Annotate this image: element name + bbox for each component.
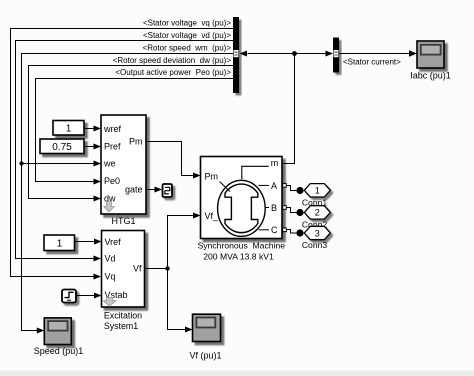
arrowhead into Pe0 bbox=[94, 179, 102, 185]
machine rotor I-beam bbox=[225, 184, 258, 233]
wire gate to terminator bbox=[146, 189, 155, 191]
svg-text:200 MVA 13.8 kV1: 200 MVA 13.8 kV1 bbox=[203, 252, 274, 262]
svg-text:<Output active power Peo (pu): <Output active power Peo (pu)> bbox=[115, 68, 231, 77]
svg-text:A: A bbox=[271, 181, 277, 191]
svg-text:<Rotor speed wm (pu)>: <Rotor speed wm (pu)> bbox=[143, 43, 232, 52]
constant block Vref value 1 bbox=[44, 235, 75, 251]
junction dot B bbox=[296, 209, 303, 216]
svg-text:C: C bbox=[271, 225, 278, 235]
block Excitation System1 bbox=[102, 231, 145, 308]
wire dw feedback (row4 to HTG dw) bbox=[29, 66, 234, 199]
arrowhead into we bbox=[94, 161, 102, 167]
machine terminal line B bbox=[266, 207, 270, 209]
arrowhead into Speed scope bbox=[37, 328, 45, 334]
scope Iabc (pu)1 bbox=[417, 41, 444, 68]
svg-text:1: 1 bbox=[315, 186, 320, 196]
junction node we bbox=[19, 161, 23, 165]
arrowhead into Vstab bbox=[94, 293, 102, 299]
wire C to Conn3 bbox=[286, 230, 297, 234]
terminator block bbox=[163, 184, 173, 197]
svg-text:System1: System1 bbox=[104, 321, 138, 331]
svg-text:HTG1: HTG1 bbox=[111, 216, 135, 226]
constant block wref value 1 bbox=[53, 121, 84, 136]
svg-text:B: B bbox=[271, 203, 277, 213]
svg-text:Pm: Pm bbox=[205, 172, 219, 182]
arrowhead into bus selector bbox=[240, 51, 248, 57]
wire wm feedback (row3 to HTG we and Speed scope) bbox=[22, 54, 234, 331]
arrowhead into Iabc scope bbox=[409, 50, 417, 56]
arrowhead into Vref bbox=[94, 239, 102, 245]
junction dot C bbox=[296, 229, 303, 236]
machine terminal line A bbox=[259, 184, 270, 186]
junction node Vf bbox=[165, 266, 169, 270]
wire A to Conn1 bbox=[286, 186, 297, 191]
HTG1 gray arrow badge bbox=[104, 202, 115, 213]
machine port square C bbox=[283, 228, 287, 232]
svg-text:<Stator voltage vd (pu)>: <Stator voltage vd (pu)> bbox=[143, 31, 231, 40]
wire vq feedback (row1 to Excitation Vq) bbox=[11, 29, 234, 277]
svg-text:<Stator current>: <Stator current> bbox=[343, 58, 401, 67]
svg-text:we: we bbox=[103, 159, 116, 169]
arrowhead into Vf scope bbox=[185, 327, 193, 333]
machine terminal line C bbox=[259, 229, 270, 231]
scope Vf (pu)1 bbox=[193, 314, 221, 341]
svg-text:Vf (pu)1: Vf (pu)1 bbox=[189, 351, 221, 361]
svg-text:Pm: Pm bbox=[129, 137, 143, 147]
junction dot A bbox=[296, 187, 303, 194]
svg-text:Conn3: Conn3 bbox=[302, 240, 328, 250]
arrowhead into terminator bbox=[155, 187, 163, 193]
arrowhead into current selector bbox=[326, 51, 334, 57]
wire Pref bbox=[84, 146, 94, 148]
step source block for Vstab bbox=[62, 290, 76, 303]
connection port 3 bbox=[304, 226, 330, 239]
machine port square A bbox=[283, 184, 287, 188]
svg-text:<Stator voltage vq (pu)>: <Stator voltage vq (pu)> bbox=[143, 19, 231, 28]
svg-text:Vf: Vf bbox=[133, 264, 142, 274]
svg-text:2: 2 bbox=[315, 208, 320, 218]
arrowhead into Vd bbox=[94, 256, 102, 262]
wire wref bbox=[84, 128, 94, 130]
svg-text:Pe0: Pe0 bbox=[104, 176, 120, 186]
svg-text:Vf_: Vf_ bbox=[205, 211, 220, 221]
connection port 2 bbox=[304, 206, 330, 219]
svg-text:Pref: Pref bbox=[104, 141, 121, 151]
svg-text:Vq: Vq bbox=[105, 271, 116, 281]
svg-text:wref: wref bbox=[103, 124, 122, 134]
svg-text:0.75: 0.75 bbox=[52, 142, 72, 153]
wire Pm (HTG to machine) bbox=[146, 142, 194, 176]
constant block Pref value 0.75 bbox=[40, 139, 84, 154]
arrowhead into Pref bbox=[94, 144, 102, 150]
arrowhead into Vq bbox=[94, 274, 102, 280]
svg-text:gate: gate bbox=[125, 185, 143, 195]
wire B to Conn2 bbox=[286, 208, 297, 213]
svg-text:1: 1 bbox=[66, 124, 72, 135]
wire vd feedback (row2 to Excitation Vd) bbox=[16, 41, 234, 259]
block HTG1 bbox=[101, 115, 146, 214]
block Synchronous Machine bbox=[201, 157, 283, 239]
arrowhead into wref bbox=[94, 126, 102, 132]
svg-text:Speed (pu)1: Speed (pu)1 bbox=[34, 346, 84, 356]
arrowhead into machine Vf_ bbox=[193, 213, 201, 219]
wire m output (machine to bus selector and current selector) bbox=[248, 54, 326, 164]
bottom window strip bbox=[0, 371, 474, 376]
svg-text:Vd: Vd bbox=[105, 254, 116, 264]
machine m tap line bbox=[242, 166, 269, 179]
connection port 1 bbox=[304, 184, 330, 197]
arrowhead into machine Pm bbox=[193, 173, 201, 179]
wire Peo feedback (row5 to HTG Pe0) bbox=[36, 79, 234, 182]
Excitation gray arrow badge bbox=[103, 298, 116, 307]
wire Vstab bbox=[76, 295, 94, 297]
svg-text:<Rotor speed deviation dw (pu: <Rotor speed deviation dw (pu)> bbox=[113, 56, 232, 65]
current selector bar bbox=[333, 38, 339, 73]
wire Vf (excitation to machine Vf_ and Vf scope) bbox=[145, 216, 194, 330]
svg-text:Synchronous Machine: Synchronous Machine bbox=[198, 241, 286, 251]
svg-text:Vref: Vref bbox=[105, 237, 122, 247]
svg-text:m: m bbox=[271, 158, 279, 168]
svg-text:1: 1 bbox=[57, 239, 63, 250]
svg-text:3: 3 bbox=[315, 228, 320, 238]
machine port square B bbox=[283, 206, 287, 210]
machine stator ellipse bbox=[218, 180, 266, 236]
scope Speed (pu)1 bbox=[44, 318, 71, 345]
arrowhead into dw bbox=[94, 196, 102, 202]
wire stator current to scope bbox=[339, 53, 410, 55]
svg-text:Iabc (pu)1: Iabc (pu)1 bbox=[410, 71, 451, 81]
bus selector bar bbox=[233, 17, 239, 93]
wire Vref bbox=[75, 241, 95, 243]
machine Pm pointer line bbox=[220, 182, 231, 192]
svg-text:Excitation: Excitation bbox=[104, 310, 142, 320]
junction node m bbox=[292, 51, 297, 56]
